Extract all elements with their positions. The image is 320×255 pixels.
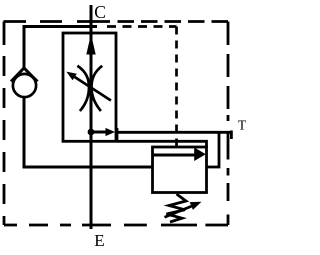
adjustability arrow across FC <box>66 72 111 101</box>
relief valve spring (zigzag) <box>167 194 187 222</box>
pilot wire (dashed vertical to relief valve) <box>175 27 178 148</box>
orifice right arc <box>92 66 103 111</box>
wire: main vertical line from port C to port E <box>90 5 93 229</box>
relief valve RV body (square) <box>153 147 207 193</box>
wire: short vertical stub joining arrow wire and bottom wire <box>116 128 119 141</box>
enclosure dashed boundary: right edge <box>227 22 230 226</box>
wire with arrow from junction dot to right <box>91 128 115 136</box>
wire: line B from FC bottom to relief valve right edge <box>117 141 207 147</box>
svg-text:C: C <box>94 2 106 22</box>
pilot wire (dashed horizontal) <box>102 25 177 28</box>
flow control valve FC body (rectangle) <box>63 33 116 141</box>
relief valve internal flow arrow <box>154 147 206 161</box>
wire: check valve to bottom junction line <box>24 97 153 168</box>
svg-text:T: T <box>238 118 247 133</box>
flow direction arrow (up) inside FC <box>86 34 95 55</box>
spring adjustability arrow <box>165 202 202 217</box>
wire: relief valve outlet jog to line A <box>207 132 220 167</box>
port T tick <box>230 131 233 140</box>
enclosure dashed boundary: top edge <box>4 20 229 23</box>
junction dot (node below orifice) <box>88 129 95 136</box>
wire: branch from main line to check valve <box>24 27 97 69</box>
check valve seat (V) <box>11 68 38 82</box>
orifice left arc <box>77 66 89 111</box>
wire: line A to port T <box>117 131 231 134</box>
enclosure dashed boundary: bottom edge <box>4 224 228 227</box>
svg-text:E: E <box>94 231 104 250</box>
enclosure dashed boundary: left edge <box>3 22 6 226</box>
check valve ball <box>13 74 36 97</box>
